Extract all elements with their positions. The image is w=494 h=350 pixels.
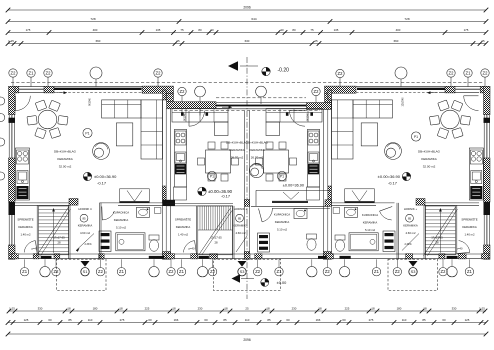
svg-text:728: 728 <box>404 17 409 21</box>
arrow top-left wall <box>57 91 67 94</box>
kitchen right-end <box>469 148 483 200</box>
svg-text:KERAMIKA: KERAMIKA <box>78 224 93 228</box>
svg-text:SPREMIŠTE: SPREMIŠTE <box>175 217 191 222</box>
svg-text:25: 25 <box>176 39 180 43</box>
svg-text:HODNIK +: HODNIK + <box>404 207 418 211</box>
svg-text:-0.17: -0.17 <box>221 194 231 199</box>
level marker plus-minus 0.00 bottom <box>261 278 287 286</box>
svg-text:HODNIK 4: HODNIK 4 <box>78 207 92 211</box>
svg-text:25: 25 <box>481 39 485 43</box>
svg-text:DB+KUH+BLAG: DB+KUH+BLAG <box>54 150 77 154</box>
svg-text:230: 230 <box>198 307 203 311</box>
dimension line segments row3 <box>6 28 489 35</box>
svg-text:Z2: Z2 <box>98 269 104 274</box>
svg-text:90/240: 90/240 <box>184 113 187 121</box>
svg-text:180: 180 <box>93 307 98 311</box>
room label living right-end <box>418 150 441 169</box>
furniture round table right-end <box>429 100 470 139</box>
svg-text:DB+KUH+BLAG: DB+KUH+BLAG <box>418 150 441 154</box>
svg-text:DB+KUH+BLAG: DB+KUH+BLAG <box>246 141 269 145</box>
svg-text:85: 85 <box>422 318 426 322</box>
door swing storage left-middle <box>183 241 196 254</box>
plant symbol right-middle <box>249 163 263 177</box>
toilet right-end <box>335 235 345 251</box>
svg-text:SPREMIŠTE: SPREMIŠTE <box>461 217 477 222</box>
svg-text:275: 275 <box>120 318 125 322</box>
dimension chain bottom row2 <box>6 318 489 325</box>
svg-text:Z1: Z1 <box>22 269 28 274</box>
room label living left-middle <box>226 141 249 160</box>
svg-text:P1: P1 <box>414 135 418 139</box>
svg-text:60: 60 <box>204 318 208 322</box>
svg-text:230: 230 <box>292 307 297 311</box>
svg-text:30: 30 <box>280 28 284 32</box>
washbasin left-end <box>137 207 150 217</box>
svg-text:Z1: Z1 <box>29 71 35 76</box>
canopy dashed line mid <box>174 110 320 112</box>
svg-text:32.00 m2: 32.00 m2 <box>423 165 436 169</box>
plant symbol right-end <box>385 143 402 160</box>
room label living right-middle <box>246 141 269 160</box>
kitchen left-middle <box>174 129 187 200</box>
svg-text:KUPAONICA: KUPAONICA <box>113 211 129 215</box>
bathtub right-end <box>349 233 378 251</box>
svg-text:166: 166 <box>316 318 321 322</box>
svg-text:28: 28 <box>435 241 439 245</box>
svg-text:±0.00=36.90: ±0.00=36.90 <box>378 174 401 179</box>
svg-text:17x17.65: 17x17.65 <box>210 235 222 239</box>
staircase right-end <box>423 206 457 256</box>
svg-text:18: 18 <box>423 307 427 311</box>
grid bubbles top row <box>9 67 489 116</box>
svg-text:85: 85 <box>267 318 271 322</box>
svg-text:Z2: Z2 <box>46 71 52 76</box>
svg-text:135: 135 <box>156 28 161 32</box>
svg-text:HODNIK +: HODNIK + <box>234 207 248 211</box>
svg-text:17x17.65: 17x17.65 <box>431 235 443 239</box>
svg-text:400: 400 <box>93 28 98 32</box>
svg-text:4.60 m2: 4.60 m2 <box>80 231 91 235</box>
door swing bath right-end <box>380 207 393 221</box>
svg-text:P1: P1 <box>85 131 89 135</box>
post label P1 right-middle <box>277 171 286 180</box>
level marker right-middle <box>283 183 304 187</box>
svg-text:KUPAONICA: KUPAONICA <box>274 213 290 217</box>
level marker right-end <box>378 172 411 185</box>
svg-text:KERAMIKA: KERAMIKA <box>363 221 378 225</box>
svg-text:60: 60 <box>148 318 152 322</box>
interior walls left-middle lower <box>166 204 234 260</box>
door swing bath right-middle <box>259 208 273 222</box>
svg-text:KERAMIKA: KERAMIKA <box>229 148 245 152</box>
section marker S3 right <box>409 261 418 276</box>
furniture sofa left-end <box>102 100 163 159</box>
kitchen left-end <box>16 148 30 200</box>
door post marks middle entries <box>181 112 313 116</box>
svg-text:26.70 m2: 26.70 m2 <box>231 156 244 160</box>
svg-text:P1: P1 <box>210 174 214 178</box>
svg-text:1.40 m2: 1.40 m2 <box>178 233 189 237</box>
svg-text:-0.20: -0.20 <box>278 67 290 73</box>
party wall left <box>163 90 176 259</box>
wall top right-end with glazing <box>356 86 490 93</box>
svg-text:2096: 2096 <box>243 338 251 342</box>
wall top center with glazing <box>216 102 332 109</box>
wardrobe niche right-end <box>345 189 375 203</box>
svg-text:2096: 2096 <box>243 6 251 10</box>
door swing entry right-middle <box>290 111 306 127</box>
staircase left-end <box>37 206 71 256</box>
svg-text:18: 18 <box>266 307 270 311</box>
svg-text:18: 18 <box>318 307 322 311</box>
dimension line 728/644/728 <box>6 17 489 24</box>
svg-text:KERAMIKA: KERAMIKA <box>233 224 248 228</box>
svg-text:Z2: Z2 <box>169 269 175 274</box>
svg-text:KERAMIKA: KERAMIKA <box>403 224 418 228</box>
svg-text:75: 75 <box>180 28 184 32</box>
svg-text:28: 28 <box>214 241 218 245</box>
svg-text:Z2: Z2 <box>325 269 331 274</box>
svg-text:1.25: 1.25 <box>9 307 15 311</box>
dimension line total 2096 top <box>6 6 489 13</box>
svg-text:Z2: Z2 <box>338 71 344 76</box>
svg-text:85: 85 <box>408 216 412 220</box>
svg-text:±0.00: ±0.00 <box>277 280 288 285</box>
svg-text:17x17.65: 17x17.65 <box>53 235 65 239</box>
svg-text:5.10 m2: 5.10 m2 <box>116 226 127 230</box>
svg-text:166: 166 <box>174 318 179 322</box>
svg-text:Z1: Z1 <box>374 269 380 274</box>
svg-text:Z2: Z2 <box>156 71 162 76</box>
svg-text:26.70 m2: 26.70 m2 <box>251 156 264 160</box>
svg-text:120/240: 120/240 <box>402 97 405 107</box>
svg-text:644: 644 <box>251 17 256 21</box>
room label storage left-end <box>17 217 33 237</box>
level marker minus 0.20 top <box>228 61 289 76</box>
svg-text:110: 110 <box>402 318 407 322</box>
post label P1 left-middle <box>207 171 216 180</box>
shelf unit right-end <box>383 231 395 252</box>
interior walls left-end lower <box>15 199 164 260</box>
svg-text:2.33%: 2.33% <box>84 243 92 246</box>
terrace dashed center <box>214 259 281 290</box>
arrow center wall <box>222 106 232 109</box>
ramp arrow hall left-end <box>76 234 94 252</box>
svg-text:KERAMIKA: KERAMIKA <box>114 218 129 222</box>
canopy dashed line center upper <box>216 97 306 99</box>
svg-text:18: 18 <box>172 307 176 311</box>
svg-text:p=40: p=40 <box>32 246 38 250</box>
post label P1 left-end <box>83 128 92 137</box>
dimension chain bottom row1 <box>7 307 488 314</box>
level marker left-middle <box>198 187 233 198</box>
svg-text:60: 60 <box>286 318 290 322</box>
label p40 left-end <box>32 246 38 250</box>
washbasin right-middle <box>294 209 307 219</box>
svg-text:Z2: Z2 <box>180 89 186 94</box>
svg-text:32.00 m2: 32.00 m2 <box>59 165 72 169</box>
wall bottom with piers and thresholds <box>9 254 491 259</box>
svg-text:330: 330 <box>38 307 43 311</box>
toilet right-middle <box>307 234 317 250</box>
svg-text:85: 85 <box>223 318 227 322</box>
canopy dashed line top <box>11 82 483 84</box>
svg-text:80: 80 <box>292 28 296 32</box>
svg-text:Z2: Z2 <box>210 269 216 274</box>
door swing bath left-end <box>102 207 115 221</box>
svg-text:S3: S3 <box>411 269 416 274</box>
room label bath right-end <box>362 213 378 232</box>
svg-text:90/240: 90/240 <box>307 113 310 121</box>
shelf unit left-end <box>99 231 111 252</box>
svg-text:1.25: 1.25 <box>8 39 14 43</box>
arrow top-right wall <box>427 91 437 94</box>
svg-text:660: 660 <box>394 39 399 43</box>
svg-text:±0.00=36.90: ±0.00=36.90 <box>283 183 304 187</box>
svg-text:400: 400 <box>396 28 401 32</box>
furniture round table left-end <box>27 100 68 139</box>
svg-text:Z2: Z2 <box>441 269 447 274</box>
stair label left-middle <box>210 235 222 244</box>
svg-text:1.40 m2: 1.40 m2 <box>20 233 31 237</box>
interior walls right-middle lower with niche <box>251 190 330 208</box>
svg-text:Z1: Z1 <box>467 269 473 274</box>
washbasin right-end <box>345 207 358 217</box>
svg-text:KERAMIKA: KERAMIKA <box>176 225 191 229</box>
grid bubbles bottom row <box>20 259 473 277</box>
ramp arrow hall right-end <box>402 234 419 251</box>
wall right exterior <box>484 86 491 259</box>
svg-text:Z2: Z2 <box>11 71 17 76</box>
svg-text:KUPAONICA: KUPAONICA <box>362 213 378 217</box>
svg-text:18: 18 <box>119 307 123 311</box>
svg-text:±0.00=36.90: ±0.00=36.90 <box>94 174 117 179</box>
svg-text:18: 18 <box>67 307 71 311</box>
party wall center <box>244 111 249 260</box>
svg-text:SPREMIŠTE: SPREMIŠTE <box>17 217 33 222</box>
svg-text:110: 110 <box>88 318 93 322</box>
svg-text:175: 175 <box>464 28 469 32</box>
svg-text:75: 75 <box>310 28 314 32</box>
svg-text:Z1: Z1 <box>119 269 125 274</box>
furniture sofa right-middle <box>266 109 322 136</box>
svg-text:25: 25 <box>245 307 249 311</box>
stair label right-end <box>431 235 443 244</box>
wall step hatched right <box>325 86 357 103</box>
svg-text:18: 18 <box>224 307 228 311</box>
svg-text:60: 60 <box>442 318 446 322</box>
svg-text:KERAMIKA: KERAMIKA <box>275 220 290 224</box>
svg-text:KERAMIKA: KERAMIKA <box>421 157 437 161</box>
section marker S1 <box>81 261 90 276</box>
svg-text:4.60 m2: 4.60 m2 <box>405 231 416 235</box>
door swing storage left-end <box>24 241 37 254</box>
svg-text:1.25: 1.25 <box>479 307 485 311</box>
boiler right-end <box>333 208 340 214</box>
svg-text:330: 330 <box>452 307 457 311</box>
svg-text:S3: S3 <box>240 269 245 274</box>
door swing entry left-middle <box>189 111 205 127</box>
party wall right <box>323 90 331 259</box>
svg-text:85: 85 <box>82 216 86 220</box>
shelf unit right-middle <box>258 233 270 252</box>
svg-text:Z1: Z1 <box>277 269 283 274</box>
svg-text:P1: P1 <box>280 174 284 178</box>
svg-text:Z2: Z2 <box>314 89 320 94</box>
svg-text:660: 660 <box>96 39 101 43</box>
svg-text:Z2: Z2 <box>449 71 455 76</box>
bathtub left-end <box>116 233 145 251</box>
room label bath left-end <box>113 211 129 230</box>
svg-text:p=40: p=40 <box>457 246 463 250</box>
ramp arrow hall left-middle <box>236 236 247 252</box>
room label storage left-middle <box>175 217 191 237</box>
svg-text:225: 225 <box>345 307 350 311</box>
plant symbol left-end <box>93 143 110 160</box>
svg-text:275: 275 <box>369 318 374 322</box>
wardrobe niche left-end <box>120 189 150 203</box>
svg-text:KERAMIKA: KERAMIKA <box>462 225 477 229</box>
furniture rect table right-middle <box>256 142 297 181</box>
svg-text:85: 85 <box>238 216 242 220</box>
svg-text:110: 110 <box>245 318 250 322</box>
svg-text:90/240: 90/240 <box>89 98 92 106</box>
svg-text:728: 728 <box>90 17 95 21</box>
axis centerline <box>246 57 248 299</box>
svg-text:175: 175 <box>26 28 31 32</box>
toilet left-end <box>149 235 159 251</box>
room label hall right-end <box>403 207 418 235</box>
svg-text:KERAMIKA: KERAMIKA <box>249 148 265 152</box>
section marker S3 center with arrow <box>232 261 255 283</box>
svg-text:125: 125 <box>24 318 29 322</box>
svg-text:180: 180 <box>397 307 402 311</box>
staircase left-middle <box>198 206 233 255</box>
svg-text:KERAMIKA: KERAMIKA <box>18 225 33 229</box>
svg-text:60: 60 <box>342 318 346 322</box>
svg-text:85: 85 <box>68 318 72 322</box>
svg-text:Z2: Z2 <box>483 71 489 76</box>
svg-text:630: 630 <box>245 39 250 43</box>
svg-text:5.10 m2: 5.10 m2 <box>365 228 376 232</box>
post label P1 right-end <box>411 132 420 141</box>
svg-text:60: 60 <box>48 318 52 322</box>
label p40 right-end <box>457 246 463 250</box>
svg-text:S1: S1 <box>83 269 88 274</box>
svg-text:4.60 m2: 4.60 m2 <box>235 231 246 235</box>
kitchen right-middle <box>307 129 320 200</box>
svg-text:p=40: p=40 <box>189 246 195 250</box>
svg-text:Z2: Z2 <box>255 269 261 274</box>
boiler left-end <box>154 208 161 214</box>
room label living left-end <box>54 150 77 169</box>
terrace dashed right <box>388 259 438 290</box>
furniture rect table left-middle <box>198 142 239 181</box>
door swing entry left-end <box>16 96 31 111</box>
furniture sofa right-end <box>332 100 393 159</box>
stair label left-end <box>53 235 65 244</box>
dimension line total 2096 bottom <box>6 332 489 342</box>
dimension line segments row4 <box>6 39 489 46</box>
svg-text:Z1: Z1 <box>466 71 472 76</box>
room label hall left-end <box>78 207 93 235</box>
svg-text:5.10 m2: 5.10 m2 <box>277 228 288 232</box>
svg-text:KERAMIKA: KERAMIKA <box>57 157 73 161</box>
svg-text:30: 30 <box>210 28 214 32</box>
svg-text:125: 125 <box>465 318 470 322</box>
room label hall left-middle <box>233 207 248 235</box>
svg-text:25: 25 <box>314 39 318 43</box>
wall step hatched left <box>142 86 216 109</box>
window size annotations <box>89 97 405 121</box>
door swing storage right-end <box>457 241 470 254</box>
svg-text:-0.17: -0.17 <box>388 180 398 185</box>
svg-text:135: 135 <box>334 28 339 32</box>
wall top left-end with glazing <box>9 86 142 93</box>
svg-text:Z2: Z2 <box>395 269 401 274</box>
room label bath right-middle <box>274 213 290 232</box>
door swing entry right-end <box>464 96 479 111</box>
grid bubbles left edge <box>0 97 5 180</box>
terrace dashed left <box>57 259 107 290</box>
svg-text:225: 225 <box>145 307 150 311</box>
level marker left-end <box>83 172 117 185</box>
interior walls right-end lower <box>331 199 479 260</box>
svg-text:1.40 m2: 1.40 m2 <box>464 233 475 237</box>
svg-text:18: 18 <box>371 307 375 311</box>
label p40 left-middle <box>189 246 195 250</box>
svg-text:-0.17: -0.17 <box>97 180 107 185</box>
furniture sofa left-middle <box>172 109 228 136</box>
wall left exterior <box>9 86 16 259</box>
room label storage right-end <box>461 217 477 237</box>
svg-text:80: 80 <box>198 28 202 32</box>
svg-text:28: 28 <box>57 241 61 245</box>
svg-text:Z1: Z1 <box>179 269 185 274</box>
svg-text:2.33%: 2.33% <box>404 243 412 246</box>
